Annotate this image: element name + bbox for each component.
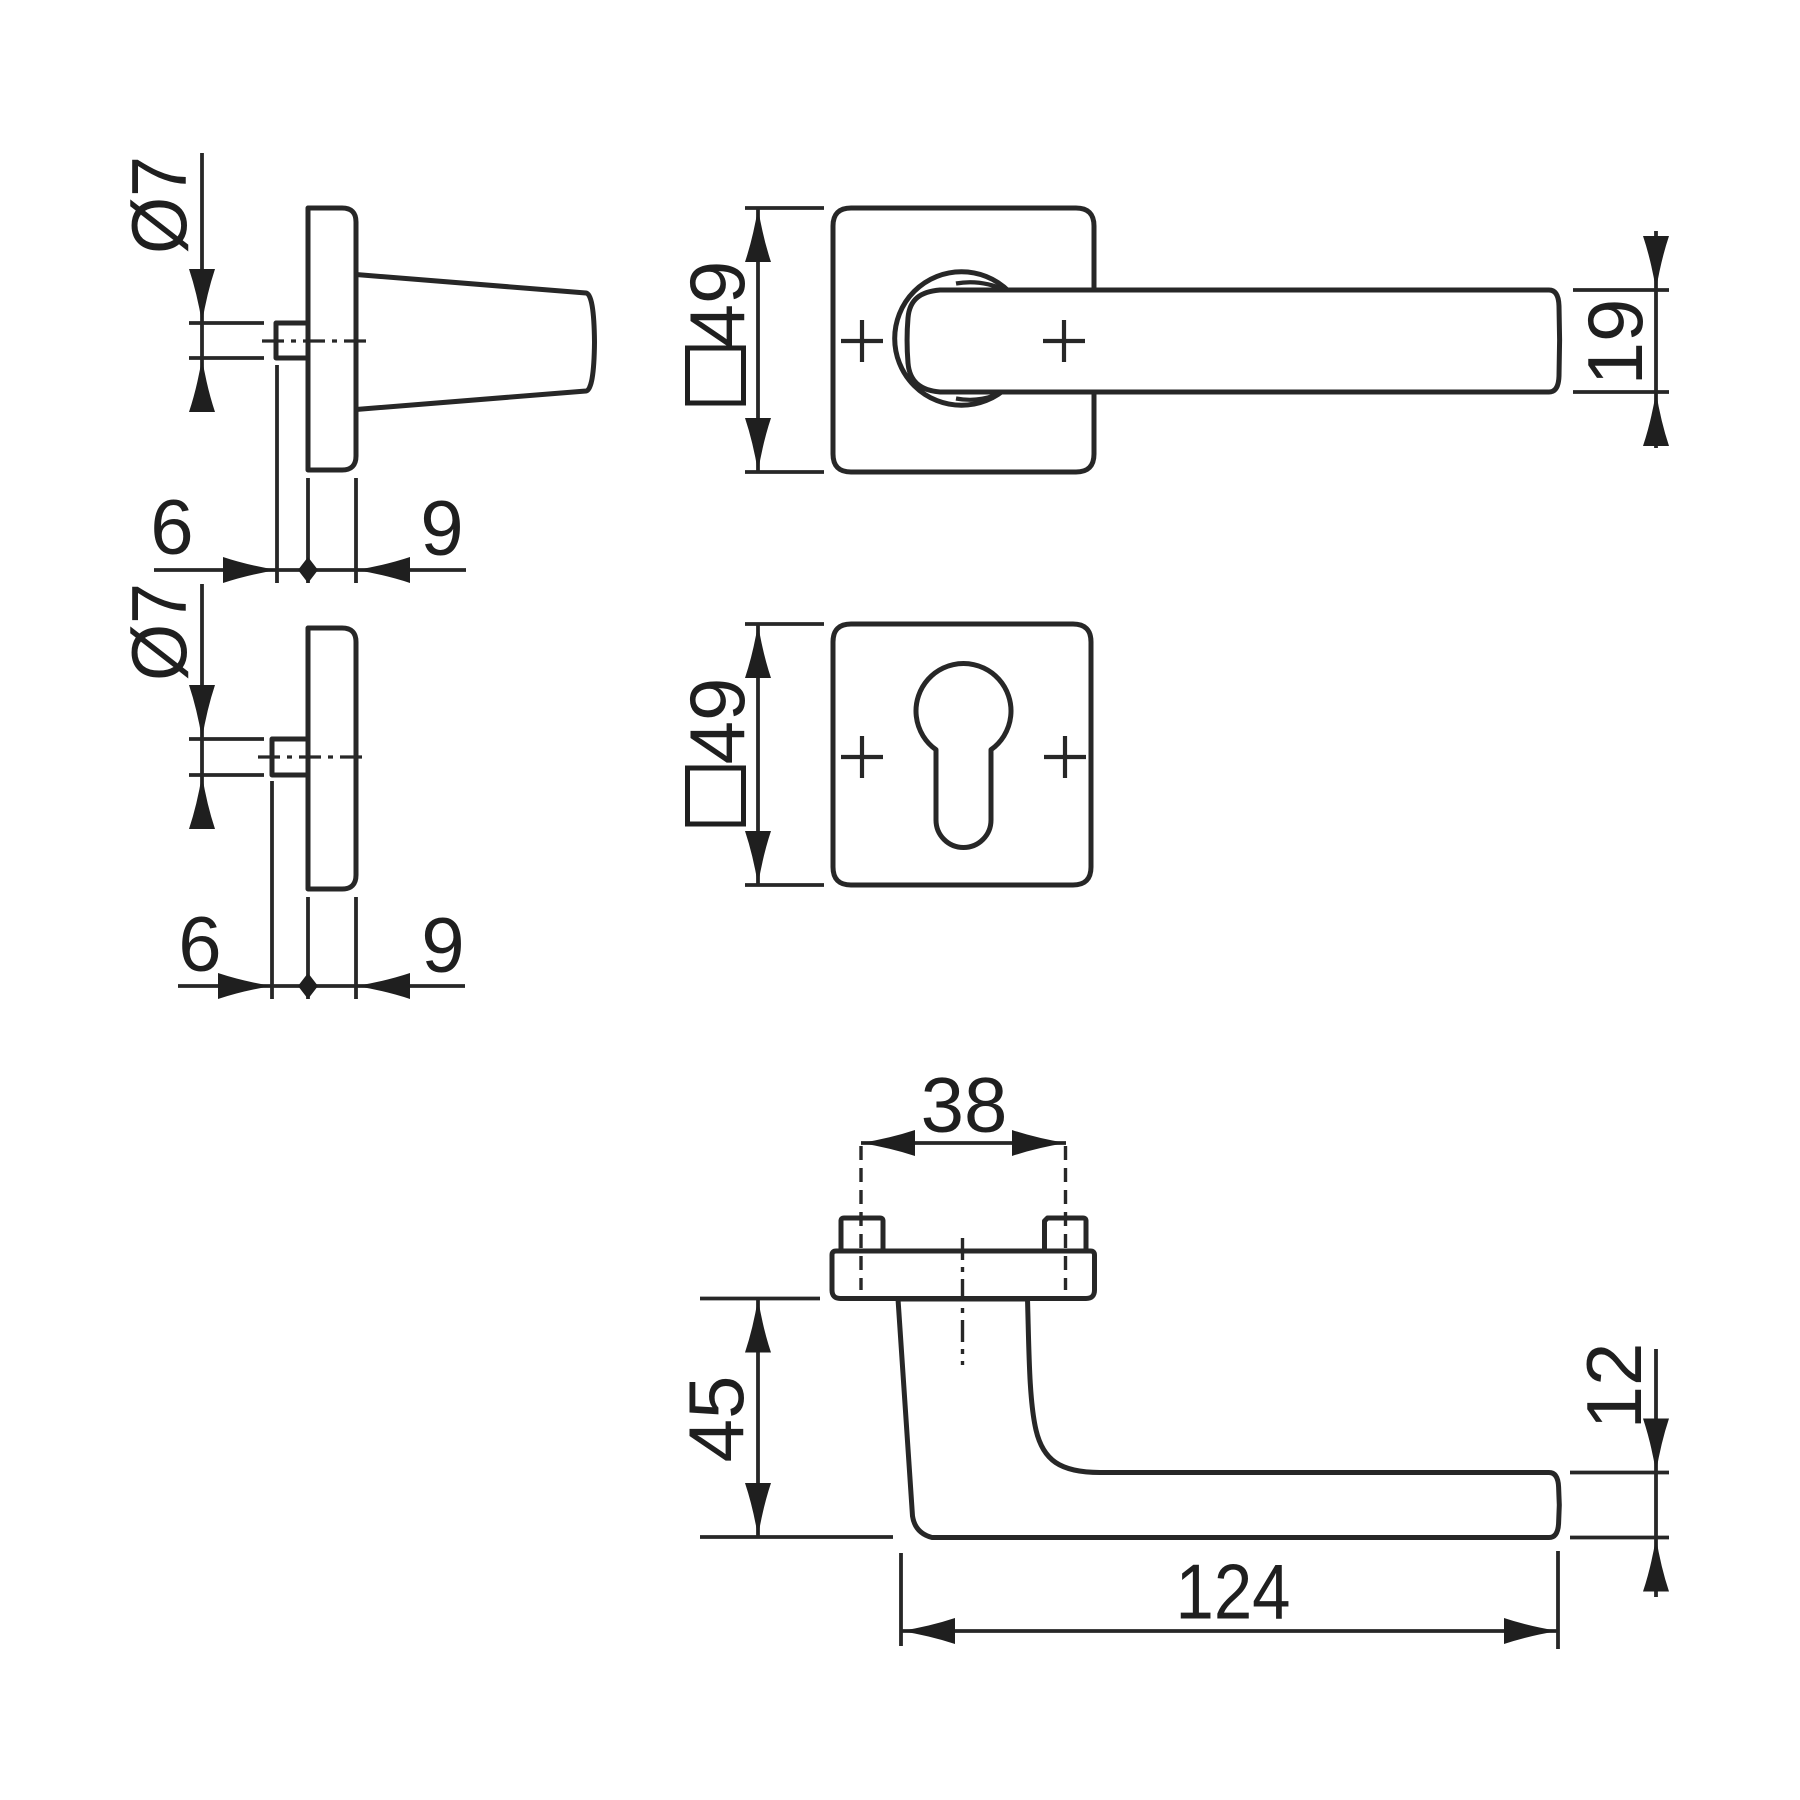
svg-text:49: 49 — [673, 678, 761, 765]
svg-text:Ø7: Ø7 — [115, 583, 203, 681]
svg-text:9: 9 — [420, 484, 463, 572]
svg-text:9: 9 — [421, 901, 464, 989]
svg-text:12: 12 — [1570, 1343, 1658, 1430]
svg-text:6: 6 — [178, 900, 221, 988]
svg-text:38: 38 — [921, 1061, 1008, 1149]
svg-text:6: 6 — [150, 483, 193, 571]
svg-text:Ø7: Ø7 — [115, 156, 203, 254]
svg-text:49: 49 — [673, 261, 761, 348]
svg-text:45: 45 — [672, 1376, 760, 1463]
svg-text:124: 124 — [1176, 1548, 1291, 1636]
svg-text:19: 19 — [1571, 299, 1659, 386]
